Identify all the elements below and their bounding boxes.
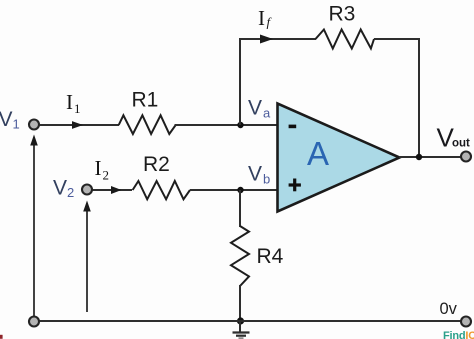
wire input2 V2 to R2	[92, 189, 132, 191]
current arrow I2	[111, 186, 122, 194]
wire feedback right vertical	[418, 38, 420, 157]
wire feedback left vertical	[239, 39, 241, 125]
wire Vb to R4	[239, 190, 241, 227]
red speck bottom left	[0, 335, 3, 339]
terminal V2	[82, 185, 92, 195]
svg-text:0v: 0v	[440, 300, 458, 318]
svg-text:FindIC: FindIC	[443, 330, 474, 339]
voltage arrow V1 vertical	[33, 144, 35, 316]
wire input1 V1 to R1	[39, 124, 119, 126]
svg-text:out: out	[452, 138, 470, 150]
voltage arrow V2 vertical	[86, 210, 88, 312]
wire feedback top right	[374, 38, 420, 40]
resistor R1	[119, 115, 176, 134]
svg-text:V: V	[0, 108, 13, 131]
node rail junction dot	[237, 317, 244, 324]
wire feedback top left	[239, 38, 316, 40]
current arrow I1	[72, 121, 83, 129]
svg-text:1: 1	[13, 117, 20, 132]
svg-text:a: a	[263, 106, 271, 121]
node Va dot	[237, 122, 243, 128]
wire R2 to op-amp	[190, 189, 277, 191]
svg-text:I: I	[258, 6, 265, 30]
svg-text:b: b	[263, 172, 270, 187]
svg-text:V: V	[248, 97, 262, 120]
resistor R3	[316, 30, 375, 49]
svg-text:2: 2	[103, 168, 110, 183]
current arrow If	[260, 35, 273, 44]
svg-text:I: I	[95, 156, 102, 180]
op-amp minus input sign	[289, 125, 297, 129]
wire R1 to op-amp	[175, 124, 278, 126]
svg-text:A: A	[307, 135, 329, 172]
svg-text:V: V	[248, 163, 262, 186]
svg-text:2: 2	[67, 185, 74, 200]
svg-text:R1: R1	[132, 89, 159, 112]
op-amp plus input sign	[289, 183, 301, 186]
terminal 0v right	[461, 317, 471, 327]
svg-text:f: f	[267, 15, 273, 30]
node output dot	[416, 154, 422, 160]
svg-text:I: I	[66, 90, 73, 114]
terminal 0v left	[29, 317, 39, 327]
node Vb dot	[237, 187, 243, 193]
svg-text:R4: R4	[257, 245, 284, 268]
svg-text:R3: R3	[329, 3, 356, 26]
resistor R4	[231, 226, 249, 286]
resistor R2	[133, 181, 190, 199]
op-amp U1 triangle	[278, 104, 400, 212]
svg-text:1: 1	[74, 101, 81, 116]
ground	[239, 321, 241, 332]
wire output	[399, 156, 461, 158]
svg-text:R2: R2	[143, 153, 170, 176]
wire bottom rail 0v	[34, 320, 466, 322]
terminal V1	[29, 120, 39, 130]
svg-text:V: V	[53, 177, 67, 200]
terminal Vout	[461, 152, 471, 162]
wire R4 to rail	[239, 285, 241, 321]
